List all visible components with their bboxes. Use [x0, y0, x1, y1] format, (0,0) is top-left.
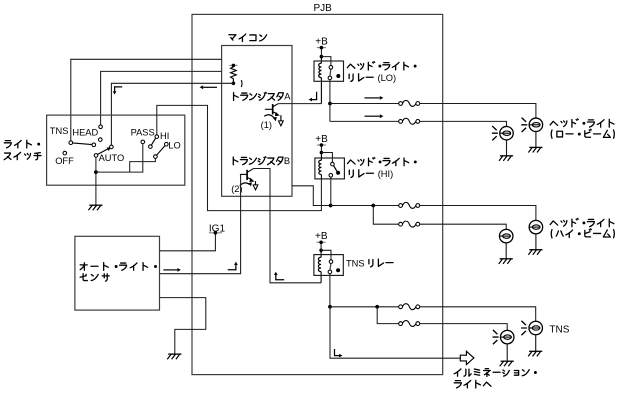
- svg-text:(HI): (HI): [378, 169, 394, 179]
- svg-text:B: B: [284, 156, 290, 166]
- fuse (LO right): [402, 102, 417, 106]
- AUTO common node and wiring: [95, 157, 97, 185]
- flow arrow (left then up into transistor B): [276, 275, 284, 280]
- svg-text:PASS: PASS: [131, 127, 155, 137]
- HEAD contacts: [99, 125, 103, 129]
- relay HI switch: [321, 153, 332, 163]
- headlight low-beam label: [550, 121, 558, 125]
- wire to high-beam right lamp: [331, 206, 536, 221]
- マイコン label: [229, 35, 236, 40]
- illumination light wire: [330, 307, 460, 358]
- TNS right lamp: [529, 321, 543, 335]
- ground: [535, 234, 537, 250]
- svg-text:+B: +B: [315, 36, 328, 47]
- headlight high-beam right lamp: [529, 220, 543, 234]
- wire: micon pin1 to TNS wiper: [71, 59, 222, 141]
- ground: [535, 132, 537, 148]
- terminal tick on resistor node: [240, 80, 243, 87]
- headlight LO feed wires: [329, 80, 331, 122]
- illumination open arrow: [460, 351, 474, 364]
- headlight high-beam left lamp: [499, 229, 513, 243]
- ground: [535, 335, 537, 352]
- svg-text:TNS: TNS: [50, 126, 69, 136]
- relay HI box: [315, 158, 345, 179]
- flow arrow (left toward switch): [203, 86, 217, 88]
- イルミネーション・ライトへ label: [454, 369, 461, 376]
- wire to TNS right lamp: [330, 307, 536, 322]
- TNS relay switch: [321, 250, 331, 259]
- ライト・スイッチ label: [4, 141, 11, 148]
- microcontroller box マイコン: [222, 46, 292, 197]
- TNS wiper: [73, 143, 93, 145]
- open arrow down (2) destination: [253, 185, 258, 190]
- svg-text:(LO): (LO): [378, 73, 397, 83]
- svg-text:LO: LO: [168, 141, 180, 151]
- headlight low-beam right lamp: [529, 118, 543, 132]
- ground: [505, 243, 507, 259]
- wire to low-beam left lamp: [330, 121, 507, 126]
- svg-text:TNS: TNS: [549, 324, 569, 335]
- オート・ライト・センサ label: [80, 263, 87, 271]
- transistor B collector to TNS relay coil: [253, 169, 321, 283]
- flow arrow (down then right to illumination): [335, 349, 340, 356]
- transistor B label: [233, 157, 238, 165]
- headlight HI feed wires: [330, 177, 332, 205]
- flow arrows on LO wires: [365, 97, 380, 99]
- light switch box: [47, 115, 185, 185]
- OFF contact: [63, 151, 67, 155]
- headlight high-beam label: [550, 221, 558, 225]
- TNS left lamp: [500, 330, 514, 344]
- svg-text:A: A: [284, 92, 291, 102]
- relay LO switch: [321, 57, 331, 66]
- flow arrow (down into switch): [115, 87, 123, 91]
- svg-text:TNS: TNS: [346, 259, 365, 269]
- TNS relay box: [314, 255, 343, 276]
- wire to low-beam right lamp: [330, 104, 536, 119]
- wire: resistor node to AUTO contact: [111, 83, 233, 145]
- wire: HI contact up-over-down to relay HI coil: [157, 105, 322, 210]
- svg-text:AUTO: AUTO: [99, 153, 125, 163]
- svg-text:HEAD: HEAD: [72, 127, 98, 137]
- transistor A label: [234, 93, 239, 101]
- svg-text:+B: +B: [315, 134, 328, 145]
- flow arrow (right then up into micon): [228, 265, 236, 270]
- PASS/HI wiper: [151, 138, 155, 145]
- svg-text:(1): (1): [261, 120, 272, 130]
- AUTO switch: [97, 149, 108, 155]
- resistor R (pull-up inside micon): [229, 64, 238, 66]
- transistor A: [265, 108, 273, 110]
- fuse (LO left): [402, 119, 417, 123]
- micon pin feed to HI lamp node: [292, 186, 331, 206]
- ground: [168, 353, 181, 355]
- LO switch: [157, 146, 165, 156]
- open arrow down (1) destination: [279, 121, 284, 126]
- wire: micon pin2 to HEAD contact: [101, 71, 222, 125]
- relay HI label: [348, 160, 356, 164]
- fuse (HI right): [402, 204, 417, 208]
- auto light sensor box: [75, 236, 160, 310]
- ground: [506, 344, 508, 361]
- transistor B: [240, 173, 247, 175]
- relay HI coil: [320, 153, 322, 179]
- TNS relay coil: [320, 250, 322, 282]
- flow arrow (down then left into transistor A): [312, 92, 317, 100]
- flow arrow on sensor output: [163, 269, 177, 271]
- transistor A emitter arrow: [273, 112, 277, 114]
- relay LO coil: [320, 57, 322, 104]
- transistor B base wire from auto light sensor: [160, 174, 241, 273]
- sensor ground wire: [160, 298, 206, 355]
- svg-text:PJB: PJB: [314, 3, 333, 14]
- wire to high-beam left lamp: [373, 206, 506, 230]
- LO pivot to AUTO common: [130, 158, 156, 172]
- transistor B emitter arrow: [247, 177, 251, 179]
- relay LO label: [347, 64, 355, 68]
- headlight low-beam left lamp: [500, 126, 514, 140]
- PASS contact: [141, 140, 145, 144]
- svg-text:HI: HI: [160, 131, 169, 141]
- ground: [506, 140, 508, 156]
- HI contact: [155, 135, 159, 139]
- fuse (TNS left): [402, 322, 417, 326]
- svg-text:OFF: OFF: [55, 156, 74, 166]
- TNS feed wires: [329, 274, 331, 307]
- fuse (TNS right): [402, 305, 417, 309]
- relay LO box: [314, 61, 344, 81]
- ground under light switch: [95, 185, 97, 205]
- fuse (HI left): [402, 222, 417, 226]
- PJB box: [192, 14, 443, 374]
- wire to TNS left lamp: [377, 307, 507, 331]
